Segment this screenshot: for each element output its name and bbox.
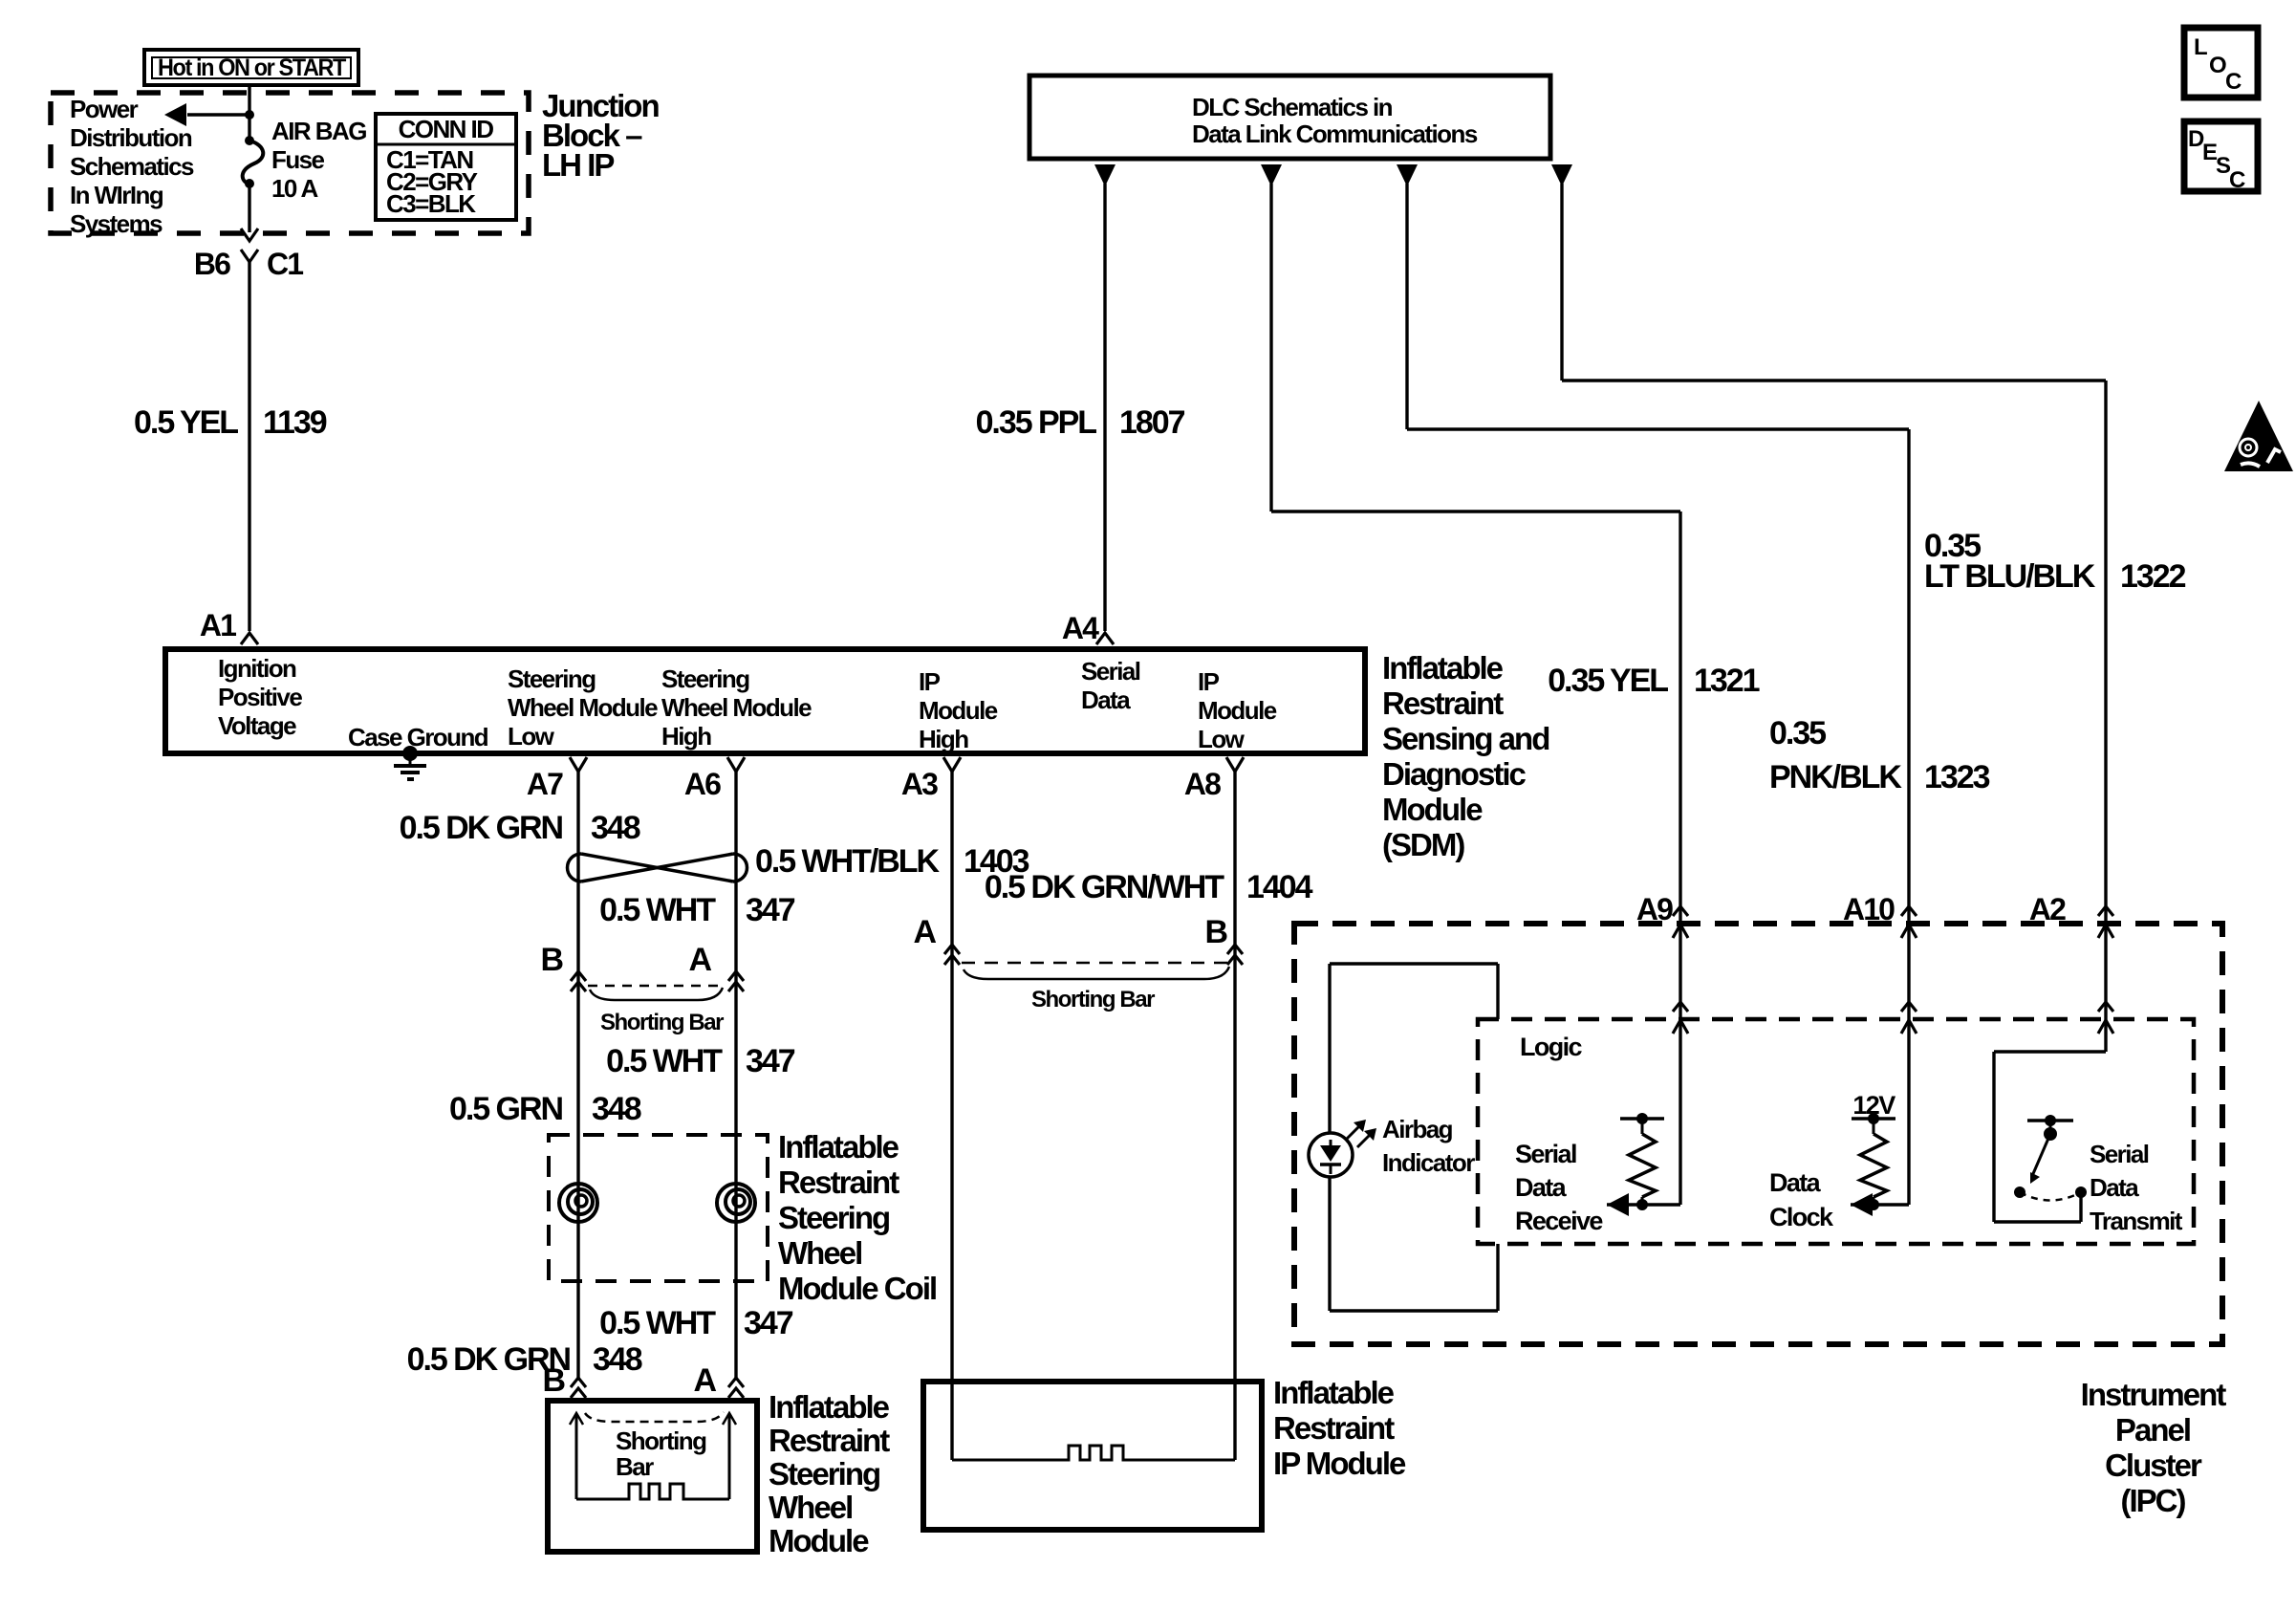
svg-text:1807: 1807 [1119, 404, 1185, 441]
svg-text:Bar: Bar [616, 1452, 654, 1481]
svg-text:Module: Module [919, 696, 998, 725]
svg-text:Wheel: Wheel [769, 1490, 852, 1525]
connector chevrons at A [728, 971, 744, 981]
wire to fuse [248, 115, 250, 141]
wire A9 to receive node [1679, 921, 1681, 1205]
svg-text:0.5 YEL: 0.5 YEL [134, 404, 238, 441]
svg-text:C: C [2229, 167, 2245, 193]
DLC off-page box [1029, 76, 1550, 159]
svg-text:A10: A10 [1843, 892, 1895, 926]
svg-text:Power: Power [70, 95, 139, 123]
connector at SDM A1 [241, 633, 258, 644]
svg-text:Low: Low [508, 722, 555, 751]
steering wheel module coil dashed box [549, 1135, 768, 1281]
svg-text:Module: Module [769, 1523, 869, 1558]
SWM internal right lead with arrow [728, 1415, 731, 1499]
svg-text:0.5 WHT: 0.5 WHT [599, 892, 716, 928]
wire 347 WHT from A6 [734, 771, 737, 1381]
svg-text:(SDM): (SDM) [1382, 827, 1464, 862]
svg-text:IP Module: IP Module [1273, 1446, 1406, 1481]
wire ignition feed [248, 85, 250, 115]
CONN ID table [376, 114, 516, 220]
shorting bar dashed link (IP) [962, 962, 1227, 965]
svg-text:Restraint: Restraint [778, 1165, 899, 1200]
svg-text:348: 348 [593, 1341, 642, 1378]
svg-text:A1: A1 [200, 608, 236, 642]
LED airbag indicator [1309, 1133, 1353, 1177]
switch serial data transmit [2027, 1119, 2073, 1122]
svg-text:High: High [661, 722, 711, 751]
connector at logic box A2 [2098, 1002, 2113, 1012]
svg-text:A3: A3 [901, 767, 938, 801]
svg-text:B: B [540, 942, 563, 978]
svg-text:347: 347 [746, 892, 795, 928]
svg-text:Wheel Module: Wheel Module [508, 693, 658, 722]
svg-text:A2: A2 [2029, 892, 2066, 926]
node junction dot [245, 110, 254, 120]
svg-text:LT BLU/BLK: LT BLU/BLK [1924, 558, 2096, 595]
svg-text:Distribution: Distribution [70, 123, 192, 152]
DLC connector arrow 1 [1094, 164, 1116, 186]
svg-text:Steering: Steering [661, 664, 749, 693]
connector B6/C1 fork [241, 250, 258, 262]
svg-text:0.5 WHT: 0.5 WHT [599, 1305, 716, 1341]
svg-text:Data: Data [1769, 1168, 1822, 1197]
svg-text:Restraint: Restraint [1382, 686, 1504, 721]
svg-text:A9: A9 [1636, 892, 1673, 926]
LOC box [2184, 28, 2258, 98]
svg-text:Restraint: Restraint [1273, 1410, 1395, 1446]
logic dashed box [1478, 1019, 2194, 1244]
SWM squib square wave [576, 1484, 729, 1499]
svg-text:A6: A6 [684, 767, 721, 801]
svg-text:Ignition: Ignition [218, 654, 296, 683]
svg-text:0.5 DK GRN: 0.5 DK GRN [400, 810, 563, 846]
svg-text:Data Link Communications: Data Link Communications [1192, 120, 1478, 148]
wire 1139 YEL [248, 262, 250, 631]
svg-text:Transmit: Transmit [2090, 1207, 2183, 1235]
svg-text:0.35 YEL: 0.35 YEL [1548, 663, 1668, 699]
svg-text:0.35: 0.35 [1769, 715, 1826, 751]
connector at logic box A10 [1901, 1002, 1917, 1012]
svg-text:Systems: Systems [70, 209, 162, 238]
svg-text:Steering: Steering [778, 1200, 889, 1235]
svg-text:Indicator: Indicator [1382, 1148, 1475, 1177]
DLC connector arrow 4 [1551, 164, 1572, 186]
svg-text:Low: Low [1198, 725, 1245, 753]
IPC dashed box [1294, 924, 2222, 1344]
svg-text:High: High [919, 725, 968, 753]
svg-text:Restraint: Restraint [769, 1423, 890, 1458]
svg-text:A: A [913, 914, 936, 950]
svg-text:C1: C1 [267, 247, 303, 281]
resistor pull-up (receive) [1620, 1117, 1664, 1121]
shorting bar dashed link (upper left) [588, 985, 725, 988]
svg-text:Voltage: Voltage [218, 711, 296, 740]
twisted pair symbol [568, 854, 582, 882]
coil right spiral [717, 1184, 755, 1222]
svg-text:A: A [688, 942, 711, 978]
svg-text:Clock: Clock [1769, 1203, 1834, 1231]
wire A2 to transmit switch [2104, 921, 2107, 1052]
svg-text:C: C [2225, 69, 2242, 95]
resistor pull-up 12V (clock) [1852, 1117, 1895, 1121]
svg-text:Schematics: Schematics [70, 152, 194, 181]
svg-text:Module: Module [1198, 696, 1277, 725]
svg-text:Inflatable: Inflatable [769, 1389, 890, 1425]
connector chevrons at IP B [1227, 945, 1243, 954]
svg-text:Steering: Steering [508, 664, 596, 693]
svg-text:0.5 WHT: 0.5 WHT [606, 1043, 723, 1079]
svg-text:Module: Module [1382, 792, 1483, 827]
SWM shorting bar dashed bracket [585, 1412, 724, 1422]
svg-text:Diagnostic: Diagnostic [1382, 756, 1527, 792]
svg-text:Panel: Panel [2115, 1412, 2190, 1448]
svg-text:Inflatable: Inflatable [778, 1129, 899, 1165]
svg-text:1321: 1321 [1694, 663, 1760, 699]
connector fork at A8 [1226, 757, 1244, 772]
svg-text:Serial: Serial [2090, 1140, 2149, 1168]
fuse AIR BAG 10A symbol [245, 136, 254, 145]
svg-text:347: 347 [744, 1305, 793, 1341]
arrow serial data receive [1607, 1193, 1629, 1216]
svg-text:O: O [2209, 53, 2226, 78]
wire 348 DK GRN from A7 [576, 771, 579, 1381]
coil left spiral [559, 1184, 597, 1222]
svg-text:348: 348 [592, 1091, 641, 1127]
wire 1321 YEL [1269, 184, 1272, 512]
svg-text:10 A: 10 A [271, 174, 318, 203]
svg-text:In WIrIng: In WIrIng [70, 181, 163, 209]
IP module box [923, 1382, 1262, 1530]
svg-text:Airbag: Airbag [1382, 1115, 1453, 1143]
arrow data clock [1851, 1193, 1873, 1216]
connector fork at A3 [943, 757, 961, 772]
wire 1807 PPL [1103, 184, 1106, 631]
svg-text:Fuse: Fuse [271, 145, 325, 174]
svg-text:PNK/BLK: PNK/BLK [1769, 759, 1902, 795]
IP module squib square wave [952, 1446, 1235, 1460]
svg-text:Positive: Positive [218, 683, 302, 711]
svg-text:Case Ground: Case Ground [348, 723, 488, 751]
DESC box [2184, 121, 2258, 191]
arrow to power distribution [187, 113, 249, 116]
svg-text:IP: IP [1198, 667, 1220, 696]
connector at IPC A10 [1901, 906, 1917, 916]
svg-text:1404: 1404 [1246, 869, 1313, 905]
svg-text:0.35 PPL: 0.35 PPL [976, 404, 1097, 441]
svg-text:0.5 WHT/BLK: 0.5 WHT/BLK [755, 843, 940, 880]
arrow down at junction block edge [241, 229, 258, 241]
svg-text:1323: 1323 [1924, 759, 1990, 795]
connector fork at A6 [727, 757, 745, 772]
steering wheel module box [548, 1401, 757, 1552]
svg-text:Inflatable: Inflatable [1273, 1375, 1395, 1410]
connector at IPC A2 [2098, 906, 2113, 916]
DLC connector arrow 2 [1261, 164, 1282, 186]
svg-text:Steering: Steering [769, 1456, 879, 1491]
power feed box "Hot in ON or START" [144, 50, 358, 85]
connector at SDM A4 [1096, 633, 1114, 644]
junction block dashed outline [51, 93, 529, 233]
svg-text:(IPC): (IPC) [2120, 1483, 2185, 1518]
connector chevrons at B [571, 971, 586, 981]
svg-text:Receive: Receive [1515, 1207, 1603, 1235]
svg-text:Serial: Serial [1081, 657, 1140, 686]
wire 1322 LT BLU/BLK [1560, 184, 1563, 381]
connector chevrons at IP A [944, 945, 960, 954]
svg-text:0.5 DK GRN/WHT: 0.5 DK GRN/WHT [985, 869, 1224, 905]
svg-text:LH IP: LH IP [542, 147, 614, 183]
svg-text:B: B [542, 1362, 565, 1399]
svg-text:Inflatable: Inflatable [1382, 650, 1504, 686]
wire 1403 WHT/BLK from A3 [950, 771, 953, 1460]
svg-text:Hot in ON or START: Hot in ON or START [158, 54, 346, 81]
connector at IPC A9 [1673, 906, 1688, 916]
svg-text:1139: 1139 [263, 404, 327, 441]
svg-text:0.5 GRN: 0.5 GRN [449, 1091, 562, 1127]
svg-text:Wheel Module: Wheel Module [661, 693, 812, 722]
wire airbag indicator loop [1330, 962, 1498, 965]
svg-text:L: L [2194, 34, 2207, 60]
svg-text:Logic: Logic [1520, 1033, 1582, 1061]
connector chevrons at module B [571, 1378, 586, 1387]
svg-text:IP: IP [919, 667, 941, 696]
svg-text:C3=BLK: C3=BLK [386, 189, 476, 218]
shorting bar bracket (IP) [964, 967, 1229, 979]
SDM module box [165, 649, 1365, 753]
connector fork at A7 [570, 757, 587, 772]
connector chevrons at module A [728, 1378, 744, 1387]
svg-text:AIR BAG: AIR BAG [271, 117, 366, 145]
svg-text:1322: 1322 [2120, 558, 2186, 595]
svg-text:Data: Data [1515, 1173, 1568, 1202]
wire fuse to connector [248, 184, 250, 232]
svg-text:B: B [1204, 914, 1227, 950]
svg-text:DLC Schematics in: DLC Schematics in [1192, 93, 1393, 121]
SWM internal left lead with arrow [575, 1415, 578, 1499]
ground case ground [402, 746, 418, 761]
svg-text:Cluster: Cluster [2105, 1448, 2202, 1483]
svg-text:348: 348 [591, 810, 640, 846]
svg-text:Wheel: Wheel [778, 1235, 861, 1271]
svg-text:Module Coil: Module Coil [778, 1271, 936, 1306]
svg-text:Shorting Bar: Shorting Bar [600, 1010, 724, 1035]
wire A10 to clock node [1907, 921, 1910, 1205]
svg-text:Shorting Bar: Shorting Bar [1031, 987, 1155, 1012]
DLC connector arrow 3 [1397, 164, 1418, 186]
svg-text:Sensing and: Sensing and [1382, 721, 1549, 756]
svg-text:A: A [693, 1362, 716, 1399]
svg-text:A7: A7 [527, 767, 563, 801]
svg-text:Instrument: Instrument [2081, 1377, 2227, 1412]
connector at logic box A9 [1673, 1002, 1688, 1012]
svg-text:Shorting: Shorting [616, 1426, 706, 1455]
shorting bar bracket (upper left) [590, 988, 723, 1000]
SRS airbag warning triangle [2224, 401, 2293, 471]
svg-text:A4: A4 [1062, 611, 1099, 645]
svg-text:Serial: Serial [1515, 1140, 1576, 1168]
wire 1323 PNK/BLK [1405, 184, 1408, 429]
svg-text:A8: A8 [1184, 767, 1221, 801]
wire 1404 DK GRN/WHT from A8 [1233, 771, 1236, 1460]
svg-text:347: 347 [746, 1043, 795, 1079]
svg-text:CONN ID: CONN ID [399, 115, 494, 143]
svg-text:B6: B6 [194, 247, 230, 281]
svg-text:Data: Data [2090, 1173, 2139, 1202]
svg-text:Data: Data [1081, 686, 1131, 714]
